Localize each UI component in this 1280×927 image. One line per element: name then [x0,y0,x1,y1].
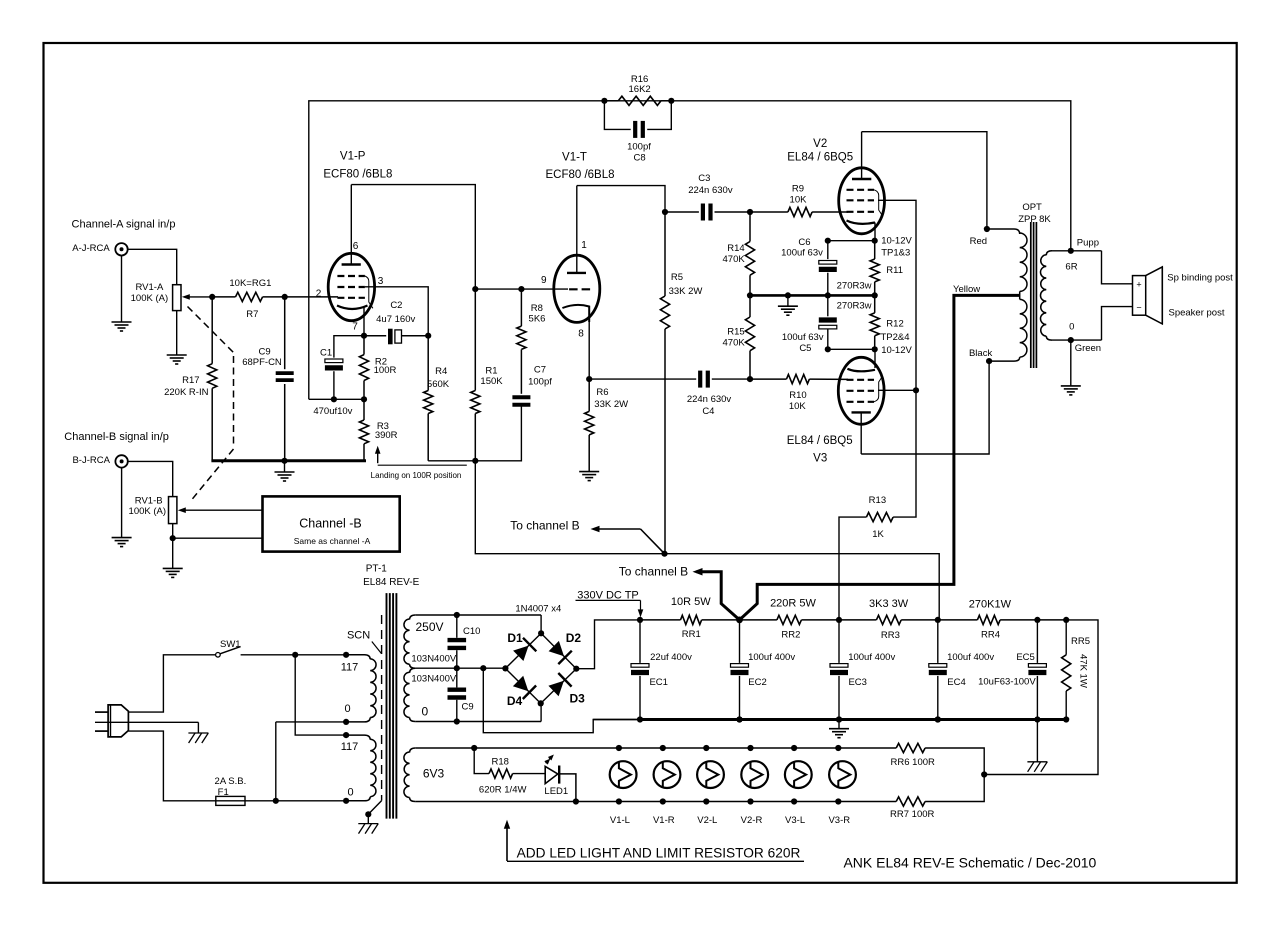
heater lamp V1-R [654,745,681,805]
resistor R4 [424,336,433,461]
capacitor C7 [512,397,530,404]
label 1N4007 x4 [515,604,561,615]
svg-text:1N4007 x4: 1N4007 x4 [515,604,561,615]
C1 labels [313,347,352,417]
svg-text:270R3w: 270R3w [837,300,872,311]
svg-text:C9: C9 [259,347,271,358]
svg-text:ECF80 /6BL8: ECF80 /6BL8 [323,169,392,181]
wire V3 screen [878,387,919,393]
ground under RCA-B [112,468,132,547]
svg-text:SW1: SW1 [220,639,241,650]
PT-1 core [387,593,397,819]
wire V1-T plate to C3 node [577,186,668,215]
resistor RR7 [896,775,984,807]
tube V1-T envelope [554,255,600,322]
svg-text:560K: 560K [427,379,450,390]
node pin8 junction [586,376,592,382]
PT-1 HT labels [411,620,457,718]
resistor R13 [839,513,893,620]
wire screens to R13 [893,390,916,517]
C10 label [463,626,480,637]
heater bottom rail [415,798,896,804]
capacitor C5 [819,295,837,349]
resistor R17 [208,297,217,461]
V2 cathode TP labels [881,236,912,259]
wire bus2 [428,404,521,461]
R18 labels [479,756,527,795]
resistor R8 [517,289,526,394]
svg-text:Landing on 100R position: Landing on 100R position [371,471,462,480]
wire RCA-B to RV1-B [128,461,173,496]
svg-text:C5: C5 [799,343,811,354]
RV1-B wiper arrow from channel-B box [178,507,263,513]
svg-text:33K 2W: 33K 2W [669,286,703,297]
V3 label [787,435,853,465]
svg-text:270K1W: 270K1W [969,598,1012,610]
svg-text:C6: C6 [798,237,810,248]
label To channel B (lower) [619,565,688,579]
svg-text:0: 0 [347,787,353,799]
switch SW1 [216,639,296,657]
heater lamp V2-L [697,745,724,805]
ground bus (thick) [593,716,1066,722]
svg-text:A-J-RCA: A-J-RCA [72,243,110,254]
ground at bias center [778,295,798,315]
svg-text:ZPP 8K: ZPP 8K [1018,214,1051,225]
svg-text:TP2&4: TP2&4 [881,332,910,343]
svg-text:6R: 6R [1065,262,1077,273]
PT-1 HT secondary winding [404,615,415,722]
svg-text:R1: R1 [485,366,497,377]
C9 power label [462,702,474,713]
RR3 labels [869,598,909,641]
V1-T cathode to pin 8 [562,305,589,379]
R14 labels [723,243,746,265]
svg-text:V2: V2 [813,138,827,150]
LED LED1 [544,755,576,802]
svg-text:TP1&3: TP1&3 [881,247,910,258]
svg-text:V3-R: V3-R [828,815,850,826]
270R3w labels [837,281,872,312]
wire RV1-B bottom [163,524,263,578]
svg-text:V3-L: V3-L [785,815,805,826]
R11 label [886,265,903,276]
svg-text:C1: C1 [320,347,332,358]
svg-text:7: 7 [352,322,358,333]
R1 labels [480,366,503,388]
wire rail wrap to heater center [981,620,1098,778]
svg-text:470uf10v: 470uf10v [313,406,352,417]
svg-text:103N400V: 103N400V [411,654,457,665]
svg-text:R14: R14 [727,243,744,254]
title [843,854,1096,870]
OPT core [1031,222,1037,368]
resistor R16 [601,96,674,105]
V3 anode plate [852,412,871,454]
OPT secondary winding [1040,248,1101,344]
resistor R1 [471,286,480,464]
svg-text:D4: D4 [507,694,523,708]
OPT secondary labels [1065,238,1101,354]
svg-text:Channel-A signal in/p: Channel-A signal in/p [72,219,176,231]
label Black [969,348,992,359]
label V2-L [697,815,717,826]
svg-text:D1: D1 [507,631,523,645]
heater lamp V3-R [829,745,856,805]
svg-text:6: 6 [353,241,359,252]
svg-text:PT-1: PT-1 [366,564,388,575]
svg-text:3K3 3W: 3K3 3W [869,598,909,610]
RCA jack B-J-RCA [72,455,127,467]
svg-text:V3: V3 [813,453,827,465]
svg-text:RR4: RR4 [981,630,1000,641]
wire primary 117 strap [292,652,349,739]
svg-text:470K: 470K [723,337,746,348]
wire cathode to C1 [334,336,364,358]
svg-text:2: 2 [316,289,322,300]
wire V3 plate to Black [861,358,992,454]
svg-text:R18: R18 [491,756,508,767]
svg-text:Channel-B signal in/p: Channel-B signal in/p [64,431,169,443]
svg-text:Green: Green [1075,343,1101,354]
resistor R9 [750,207,848,216]
V1-P label [323,151,392,181]
diode D4 [505,668,540,703]
resistor R11 [870,241,879,296]
svg-text:330V DC TP: 330V DC TP [577,589,639,601]
capacitor C3 [665,204,753,221]
svg-text:To channel B: To channel B [510,518,579,532]
C4 labels [687,394,732,417]
RV1-A wiper arrow [182,294,212,300]
svg-text:100uf 63v: 100uf 63v [781,248,823,259]
svg-text:16K2: 16K2 [629,84,651,95]
C9 labels [242,347,282,368]
ground under bus [829,720,849,738]
label Red [970,236,987,247]
R7 labels [229,278,271,320]
svg-text:10K: 10K [789,401,807,412]
C3 labels [688,173,733,196]
resistor R3 [359,399,368,461]
svg-text:V1-T: V1-T [562,152,587,164]
svg-text:RR1: RR1 [682,629,701,640]
V1-T grid row [569,288,590,290]
annotation 330V DC TP [576,589,644,617]
V1-P grid rows [337,276,365,298]
EC4 labels [947,652,994,688]
V1-T pin labels [541,240,587,340]
svg-text:150K: 150K [480,376,503,387]
svg-text:+: + [1136,280,1141,290]
wire B+ riser to channel B junction [475,461,667,557]
svg-text:Speaker post: Speaker post [1169,308,1225,319]
V3 grid side rod [874,377,882,402]
svg-text:Sp binding post: Sp binding post [1167,272,1233,283]
fuse F1 [215,776,276,805]
diode labels [507,631,585,708]
diode D1 [502,630,544,671]
resistor R5 [660,212,669,554]
svg-text:EC5: EC5 [1016,652,1034,663]
svg-text:D3: D3 [570,692,586,706]
svg-text:100K (A): 100K (A) [131,293,169,304]
svg-text:B-J-RCA: B-J-RCA [72,455,110,466]
V1-P cathode [337,306,368,310]
svg-text:390R: 390R [375,430,398,441]
wire bridge DC+ to rail [576,620,640,669]
annotation landing arrow [371,446,467,480]
label V1-L [610,815,630,826]
svg-text:RR3: RR3 [881,630,900,641]
svg-text:−: − [1136,303,1141,313]
wire channel B junction to rail [665,554,940,620]
OPT label [1018,202,1051,225]
resistor R12 [870,295,879,349]
PT-1 primary lower winding [346,735,376,801]
V2 grid side rod [874,190,882,216]
dashed gang line RV1-A to RV1-B [188,307,234,501]
svg-text:R17: R17 [182,375,199,386]
svg-text:0: 0 [344,703,350,715]
svg-text:9: 9 [541,275,547,286]
svg-text:10-12V: 10-12V [881,236,912,247]
PT-1 heater label [423,767,445,781]
wire RCA-A to RV1-A [128,249,177,284]
svg-text:R4: R4 [435,366,447,377]
ground bus A (thick) [211,458,366,464]
OPT primary winding [987,229,1027,361]
wire V1-P plate to R1 rail [351,185,475,290]
EC2 labels [748,652,795,688]
svg-text:ADD LED LIGHT AND LIMIT RESIST: ADD LED LIGHT AND LIMIT RESISTOR 620R [517,846,801,861]
svg-text:224n 630v: 224n 630v [688,185,733,196]
bias center line (thick) [747,292,878,298]
OPT yellow tap wire (thick) [693,295,1020,620]
V1-P pin labels [316,241,384,333]
box Channel -B [263,496,400,551]
svg-text:F1: F1 [218,787,229,798]
R17 labels [164,375,208,398]
chassis ground at bus right [1027,720,1047,772]
V3 grid rows [847,380,875,402]
svg-text:EL84 / 6BQ5: EL84 / 6BQ5 [787,435,853,447]
svg-text:EC1: EC1 [649,677,667,688]
svg-text:Red: Red [970,236,987,247]
wire HT center tap [415,665,505,671]
C6 labels [781,237,823,259]
svg-text:100uf 400v: 100uf 400v [848,652,895,663]
svg-text:10uF63-100V: 10uF63-100V [978,676,1036,687]
R12 label [886,319,903,330]
svg-text:22uf 400v: 22uf 400v [650,652,692,663]
PT-1 primary labels [341,662,359,799]
R5 labels [669,272,703,297]
svg-text:EL84 REV-E: EL84 REV-E [363,577,419,588]
svg-text:100R: 100R [374,365,397,376]
svg-text:1K: 1K [872,529,884,540]
V2 grid rows [847,190,875,212]
wire V3 cathode node [825,346,878,368]
PT-1 primary upper winding [346,655,376,722]
svg-text:R5: R5 [671,272,683,283]
svg-text:220K R-IN: 220K R-IN [164,387,208,398]
svg-text:100uf 400v: 100uf 400v [947,652,994,663]
svg-text:EL84 / 6BQ5: EL84 / 6BQ5 [787,151,853,163]
svg-text:EC4: EC4 [947,677,965,688]
svg-text:10-12V: 10-12V [881,345,912,356]
svg-text:100pf: 100pf [627,141,651,152]
wire V2 screen [878,200,916,390]
svg-text:0: 0 [1069,321,1074,332]
tube V1-P envelope [328,253,374,320]
R9 labels [790,184,808,206]
B+ rail with RR resistors [637,615,1069,624]
svg-text:3: 3 [378,276,384,287]
capacitor C2 [364,329,431,345]
svg-text:2A S.B.: 2A S.B. [215,776,247,787]
svg-text:R10: R10 [789,390,806,401]
svg-text:Channel -B: Channel -B [299,517,362,531]
label Channel-B signal in/p [64,431,169,443]
svg-text:R13: R13 [869,495,886,506]
svg-text:33K 2W: 33K 2W [594,399,628,410]
wire plug neutral to fuse [128,731,215,801]
C8 value label [627,141,651,163]
C7 labels [528,364,552,387]
wire bridge DC- return [483,668,642,733]
tube V3 envelope [838,357,884,424]
svg-text:103N400V: 103N400V [411,673,457,684]
C2 labels [376,300,415,325]
annotation To channel B upper [510,518,664,553]
speaker labels [1167,272,1233,318]
svg-text:68PF-CN: 68PF-CN [242,357,282,368]
wire primary 0 strap [273,719,350,804]
svg-text:C8: C8 [634,152,646,163]
svg-text:D2: D2 [566,631,582,645]
potentiometer RV1-B [129,496,177,524]
label V2-R [741,815,763,826]
diode D3 [538,669,577,707]
resistor R10 [750,375,848,384]
RR4 labels [969,598,1012,640]
svg-text:Same as channel -A: Same as channel -A [294,536,371,546]
wire V1-P cathode pin7 [361,308,367,339]
svg-text:ANK EL84 REV-E Schematic / Dec: ANK EL84 REV-E Schematic / Dec-2010 [843,854,1096,870]
svg-text:117: 117 [341,662,359,674]
svg-text:To channel B: To channel B [619,565,688,579]
svg-text:Black: Black [969,348,992,359]
heater lamp V1-L [610,745,637,805]
R8 labels [529,303,546,324]
resistor RR6 [896,743,984,774]
R16 value label [629,74,651,95]
svg-text:V2-R: V2-R [741,815,763,826]
wire secondary to speaker [1102,251,1133,340]
heater lamp V2-R [741,745,768,805]
capacitor C9 68PF [276,297,294,461]
svg-text:470K: 470K [723,254,746,265]
wire RV1-A bottom to ground [167,311,187,364]
svg-text:C4: C4 [702,406,714,417]
resistor R18 [474,748,545,778]
resistor R6 [579,379,599,481]
capacitor C6 [819,241,837,296]
resistor R2 [359,336,368,403]
wire V2 plate to Red [862,132,990,232]
capacitor EC1 [631,620,649,723]
svg-text:C2: C2 [390,300,402,311]
svg-text:100uf 63v: 100uf 63v [782,332,824,343]
speaker [1133,267,1163,324]
svg-text:RR5: RR5 [1071,636,1090,647]
capacitor C1 [325,359,343,402]
wire plug live to SW1 [128,655,215,712]
wire 0V to bridge [415,703,541,724]
wire V1-P pin3 to C2 node [365,287,428,336]
capacitor EC5 [1028,620,1046,723]
svg-text:8: 8 [578,329,584,340]
V1-P grid side rod [365,276,373,308]
EC5 labels [978,652,1036,687]
R6 labels [594,387,628,410]
V1-P anode plate and pin 6 [342,185,361,265]
svg-text:1: 1 [581,240,587,251]
PT-1 label [363,564,419,588]
resistor R7 [209,292,338,301]
RR7 label [890,809,934,820]
R13 labels [869,495,886,540]
capacitor C8 [604,101,671,138]
capacitor C4 [700,371,753,388]
svg-text:RR2: RR2 [781,630,800,641]
svg-text:R11: R11 [886,265,903,276]
svg-text:4u7 160v: 4u7 160v [376,314,415,325]
annotation ADD LED arrow [504,820,510,861]
svg-text:10K: 10K [790,194,808,205]
tube V2 envelope [839,168,885,234]
svg-text:ECF80 /6BL8: ECF80 /6BL8 [545,169,614,181]
EC3 labels [848,652,895,688]
resistor R14 [745,212,754,295]
svg-text:EC3: EC3 [848,677,866,688]
label V3-L [785,815,805,826]
svg-text:C10: C10 [463,626,480,637]
svg-text:47K 1W: 47K 1W [1078,654,1089,688]
svg-text:10R 5W: 10R 5W [671,596,711,608]
R4 labels [427,366,450,390]
svg-text:OPT: OPT [1022,202,1042,213]
svg-text:Yellow: Yellow [953,284,980,295]
svg-text:224n 630v: 224n 630v [687,394,732,405]
capacitor C10 [448,615,467,668]
V2 cathode [847,221,876,224]
V3 cathode [847,369,875,372]
svg-text:220R 5W: 220R 5W [770,597,816,609]
V2 anode plate [852,132,871,179]
svg-text:R6: R6 [596,387,608,398]
capacitor EC2 [731,620,749,723]
svg-text:V1-P: V1-P [340,151,366,163]
wire pin9 line [475,286,568,292]
svg-text:270R3w: 270R3w [837,281,872,292]
svg-text:5K6: 5K6 [529,314,546,325]
svg-text:250V: 250V [415,620,443,634]
svg-text:RV1-A: RV1-A [135,282,163,293]
potentiometer RV1-A [131,282,181,310]
R2 labels [374,356,397,376]
